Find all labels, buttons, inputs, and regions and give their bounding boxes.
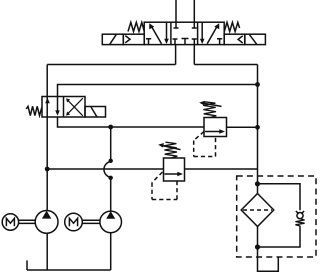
V2 solenoid box xyxy=(85,107,106,118)
right square blocked port T mark xyxy=(217,39,222,45)
wire pump1 riser x47 xyxy=(46,65,48,211)
pilot box right inner with triangle xyxy=(224,34,245,44)
wire pump P2 suction xyxy=(110,233,112,270)
wire pump1 line to RV2 xyxy=(47,168,163,170)
wire right tank riser x257 xyxy=(257,65,259,184)
wire bypass branch top xyxy=(258,184,301,210)
RV1 pilot dashed loop xyxy=(194,132,216,157)
motor M1 circle xyxy=(2,214,18,230)
coupling M2-P2 xyxy=(82,220,100,223)
crossover hop dots xyxy=(109,159,113,163)
wire y64 right segment xyxy=(194,64,257,66)
check valve spring xyxy=(295,219,304,226)
wire pump2 riser lower xyxy=(110,179,112,212)
node filter top junction xyxy=(255,181,260,186)
node RV1 tank junction xyxy=(255,125,260,130)
wire A-line up from main valve xyxy=(175,0,177,22)
pump P1 circle xyxy=(35,211,58,234)
left square down arrow xyxy=(164,23,169,44)
pump P1 triangle xyxy=(42,211,51,219)
wire LV top-right port riser xyxy=(58,85,258,97)
node at 257,84 xyxy=(255,82,260,87)
node pump1 junction xyxy=(45,167,50,172)
op valve body U1 main 4/3 directional valve body xyxy=(144,22,224,44)
solenoid valve V2 body 4/2 xyxy=(42,97,85,118)
RV2 right wire xyxy=(185,168,258,170)
V2 crossed arrows xyxy=(66,98,83,116)
filter F1 diamond xyxy=(241,194,274,227)
wire T-port riser from valve bottom xyxy=(193,45,195,65)
V2 up arrow xyxy=(45,98,50,103)
left square blocked port T mark xyxy=(146,39,151,45)
relief valve RV1 xyxy=(204,118,227,137)
right square down arrow xyxy=(200,23,205,44)
wire pump P1 suction xyxy=(46,233,48,270)
motor M2 letter xyxy=(69,218,77,226)
solenoid box left outer xyxy=(102,34,123,44)
RV2 pilot dashed loop xyxy=(152,172,177,200)
RV2 adjust arrow xyxy=(158,143,180,150)
RV1 spring xyxy=(203,102,216,118)
pilot box left inner with triangle xyxy=(123,34,144,44)
wire bypass branch bottom xyxy=(258,226,301,247)
wire filter outlet xyxy=(257,227,259,248)
center square blocked bottom-left port xyxy=(173,39,178,45)
wire V2 bottom-right port to RV1 line xyxy=(58,117,205,127)
coupling M1-P1 xyxy=(19,220,36,223)
pump P2 triangle xyxy=(106,211,115,219)
wire suction stub up xyxy=(26,260,28,270)
center square blocked top-right port xyxy=(192,23,197,29)
RV1 right wire xyxy=(227,126,258,128)
spring right above pilot box xyxy=(224,22,239,31)
wire pump2 riser upper xyxy=(110,127,112,159)
V2 spring left xyxy=(26,106,42,115)
right square diagonal arrow xyxy=(207,23,219,44)
crossover hop arc xyxy=(104,162,111,178)
center square blocked top-left port xyxy=(174,23,179,29)
dashed enclosure box tank unit xyxy=(237,176,316,257)
relief valve RV2 xyxy=(164,158,185,181)
wire y64 left segment xyxy=(47,64,175,66)
solenoid box right outer xyxy=(245,34,266,44)
RV2 spring xyxy=(164,142,177,158)
node filter bottom junction xyxy=(255,244,260,249)
RV1 adjust arrow xyxy=(199,101,221,107)
check valve ball xyxy=(297,213,303,219)
motor M1 letter xyxy=(6,218,14,226)
V2 down arrow xyxy=(57,97,59,112)
check valve seat xyxy=(296,211,304,214)
wire suction manifold xyxy=(27,269,111,271)
wire B-line up from main valve xyxy=(193,0,195,22)
wire drain to tank xyxy=(258,247,279,271)
center square blocked bottom-middle port xyxy=(182,39,189,45)
center square blocked bottom-right port xyxy=(192,39,197,45)
wire P-port riser from valve bottom xyxy=(175,45,177,65)
spring left above pilot box xyxy=(128,22,144,31)
left square diagonal arrow xyxy=(149,23,161,44)
pump P2 circle xyxy=(100,211,122,233)
node pump2 junction xyxy=(108,125,113,130)
wire filter inlet xyxy=(257,184,259,194)
motor M2 circle xyxy=(65,213,83,231)
